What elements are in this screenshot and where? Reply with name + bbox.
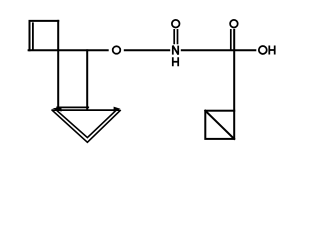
bond: C=O axis and C down to bicyclobutane square (233, 30, 235, 111)
bicyclobutane square (bottom-right) (205, 111, 234, 139)
cyclobutene ring (top-left square) (30, 21, 59, 50)
cyclobutane right vertical bond (86, 50, 88, 108)
main chain bond: square bottom to ether O (29, 49, 108, 51)
bond: ether O to N (125, 49, 169, 51)
double bond inner line of cyclobutene (32, 23, 34, 49)
bond: N to carboxyl C and on to OH (182, 49, 256, 51)
hydroxyl O (259, 46, 267, 54)
atom N (173, 46, 178, 55)
junction wedge at lower-ring right vertex (114, 107, 121, 112)
C=O double bond companion line (230, 30, 232, 50)
cyclobutane bottom bond (57, 106, 88, 108)
lower ring outer V (double-bond outer lines) (52, 111, 120, 143)
shared vertical bond: square right edge down to lower ring (57, 21, 59, 109)
lower ring inner V (double-bond inner lines) (56, 110, 117, 138)
hydroxyl H (269, 46, 274, 55)
junction wedge at lower-ring left vertex (52, 107, 61, 111)
atom H on N (173, 57, 178, 66)
atom O (N-oxide) (172, 20, 180, 28)
atom O (carbonyl) (230, 20, 238, 28)
atom O (ether) (113, 46, 121, 54)
bicyclobutane diagonal bond (205, 111, 234, 139)
lower ring top bond (horizontal) (52, 109, 119, 111)
N=O double bond lines (173, 30, 175, 44)
